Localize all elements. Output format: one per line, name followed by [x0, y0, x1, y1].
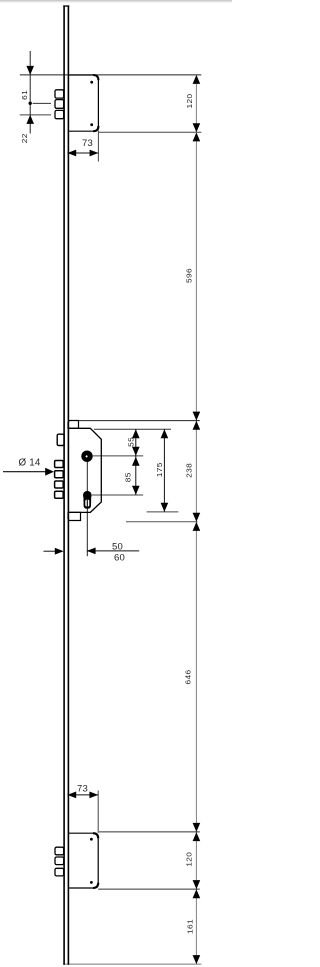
right chain arrows y831.9	[193, 823, 201, 832]
dim line 55-85 vertical	[135, 429, 137, 495]
ext line mid tab bottom y521.7	[126, 521, 198, 523]
dim55 arrow down at 455.7	[132, 447, 140, 456]
svg-text:73: 73	[82, 138, 93, 149]
dim55 arrow up at 429	[132, 429, 140, 438]
svg-text:61: 61	[21, 90, 30, 100]
middle tab bottom	[68, 512, 81, 520]
follower center white dot	[86, 455, 88, 457]
ext line bottom case top y832	[99, 831, 200, 833]
dim85 arrow down at 494.7	[132, 486, 140, 495]
cylinder axis line	[86, 462, 88, 492]
middle tab top	[68, 421, 79, 429]
svg-text:50: 50	[112, 542, 123, 553]
dim line 175 vertical	[163, 429, 165, 512]
dim line 73 top	[67, 152, 98, 154]
svg-text:22: 22	[21, 133, 30, 143]
dim73 bottom left head	[67, 792, 76, 799]
bottom lock latch box 2	[55, 857, 64, 865]
ext line follower y456	[93, 455, 143, 457]
dia14 leader line	[3, 471, 47, 473]
ext line top lock mid latch y103	[33, 102, 51, 104]
ext line top lock bottom latch y117	[20, 114, 51, 116]
ext line cylinder y495	[92, 494, 143, 496]
faceplate right line	[68, 5, 70, 964]
follower circle	[81, 451, 92, 462]
ext line top lock case bottom y132	[98, 131, 201, 133]
dim175 arrow up at 429	[161, 429, 169, 438]
svg-text:175: 175	[155, 462, 164, 477]
dim50-60 left-pointing head at axis	[87, 548, 96, 555]
cylinder keyway middle bar	[87, 500, 88, 507]
ext line mid case top y429	[94, 428, 171, 430]
right chain arrows y521.7	[193, 513, 201, 522]
faceplate left line	[63, 5, 65, 964]
ext line 73 bottom vertical	[97, 791, 99, 834]
right dim chain vertical line	[195, 75, 197, 964]
pin bolt box 2	[55, 471, 64, 478]
ext line top lock top y75	[20, 74, 202, 76]
svg-text:161: 161	[186, 919, 195, 934]
middle latch box	[57, 434, 64, 445]
pin bolt box 3	[55, 481, 64, 488]
right chain arrow up y75	[193, 75, 201, 84]
dim85 arrow up at 456.7	[132, 457, 140, 466]
svg-text:85: 85	[124, 472, 133, 482]
dim73 bottom right head	[89, 792, 98, 799]
faceplate top cap	[63, 5, 69, 6]
ext line bottom case bottom y889	[98, 888, 200, 890]
top lock screw dot lower	[90, 123, 93, 126]
right chain arrow down y955	[193, 955, 201, 964]
right chain arrows y132	[193, 123, 201, 132]
svg-text:238: 238	[185, 463, 194, 478]
dot left chain y103	[29, 102, 32, 105]
svg-text:55: 55	[127, 437, 136, 447]
bottom lock screw dot upper	[90, 838, 93, 841]
bottom lock latch box 1	[55, 847, 64, 855]
right chain arrows y889.1	[193, 880, 201, 889]
pin bolt box 1	[55, 461, 64, 468]
dia14 arrowhead	[45, 468, 54, 476]
cylinder head circle	[83, 491, 92, 500]
ext line mid case bottom y512	[147, 511, 179, 513]
ext line faceplate bottom y955	[63, 963, 201, 965]
bottom lock screw dot lower	[90, 881, 93, 884]
arrow down left chain at y75	[26, 66, 34, 75]
svg-text:596: 596	[185, 268, 194, 283]
top lock latch box 2	[55, 100, 64, 109]
dim line 73 bottom	[67, 794, 98, 796]
pin bolt box 4	[55, 491, 64, 498]
top lock case	[68, 75, 98, 131]
svg-text:120: 120	[186, 93, 195, 108]
cylinder white keyway	[85, 500, 89, 507]
arrow right dim73 top left head	[67, 150, 76, 157]
dim50-60 right-pointing head at faceplate	[55, 548, 64, 555]
right chain arrows y420.6	[193, 412, 201, 421]
top shadow band	[0, 0, 232, 3]
svg-text:60: 60	[114, 553, 125, 564]
top lock latch box 3	[55, 110, 64, 118]
svg-text:120: 120	[185, 851, 194, 866]
svg-text:646: 646	[184, 669, 193, 684]
middle case body	[68, 428, 101, 512]
top lock corner arcs thick	[93, 75, 98, 131]
arrow up left chain at y117	[26, 115, 34, 124]
svg-text:Ø 14: Ø 14	[18, 457, 40, 468]
bottom lock case	[68, 833, 98, 888]
arrow dim73 top right head	[90, 150, 99, 157]
bottom lock latch box 3	[55, 868, 64, 876]
top lock latch box 1	[55, 90, 64, 98]
top lock screw dot upper	[90, 81, 93, 84]
ext line mid tab top y420.8	[79, 420, 200, 422]
left dim chain vertical line	[29, 51, 31, 133]
dim 50-60 right segment / fraction bar	[87, 550, 139, 552]
dim 50-60 left segment	[44, 550, 58, 552]
bottom lock corner arcs thick	[93, 833, 98, 888]
cylinder slot body	[83, 497, 91, 509]
ext line 73 top lock vertical	[97, 131, 99, 162]
svg-text:73: 73	[77, 784, 88, 795]
dim175 arrow down at 511.8	[161, 503, 169, 512]
